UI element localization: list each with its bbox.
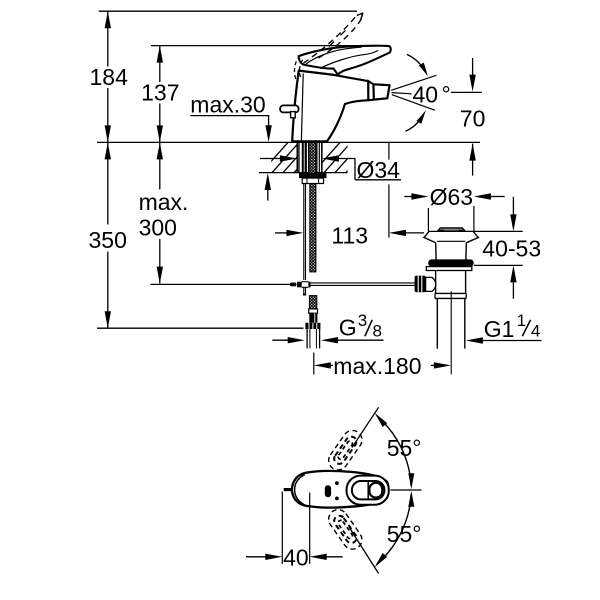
node 113 dimension: [275, 232, 288, 234]
wire: [99, 10, 357, 12]
top view: lever capsule inner: [352, 481, 385, 499]
body inner line: [301, 74, 303, 141]
svg-text:350: 350: [89, 227, 127, 253]
countertop cross-section hatch left: [258, 138, 347, 176]
node 350 dimension: [107, 142, 109, 224]
drain: Ø63 extension lines: [427, 208, 429, 231]
drain flange top line: [429, 230, 523, 232]
wire: [259, 172, 348, 174]
svg-text:Ø34: Ø34: [357, 157, 401, 183]
svg-text:40: 40: [283, 545, 309, 571]
faucet shank: second tube: [316, 142, 318, 172]
body top edge: [299, 71, 334, 75]
hose fitting collar: [309, 309, 318, 313]
extension line aerator axis: [388, 142, 390, 159]
svg-text:137: 137: [141, 80, 179, 106]
knob connector: [426, 277, 436, 291]
node 137 dimension: [159, 46, 161, 82]
drain flange funnel: [424, 231, 436, 242]
pop-up linkage horizontal line: [150, 283, 285, 285]
top view: horizontal centerline right: [391, 489, 422, 491]
node 184 dimension: [107, 11, 109, 66]
hose end tube G3/8: [306, 329, 308, 348]
node 70 dimension: [472, 58, 474, 77]
drain dome plug (gray): [438, 228, 466, 231]
top view: faucet body outline: [292, 471, 389, 508]
top view: cartridge pill: [325, 485, 331, 497]
drain centerline: [450, 291, 452, 374]
svg-text:300: 300: [139, 215, 177, 241]
mounting nut: [299, 173, 327, 178]
svg-text:°: °: [442, 81, 451, 107]
top view: capsule divider: [367, 482, 369, 499]
swivel arc arrow upper: [407, 54, 425, 71]
top view: capsule inner oval: [369, 483, 382, 498]
svg-text:55°: 55°: [387, 435, 422, 461]
svg-text:max.30: max.30: [190, 91, 265, 117]
lever inner curves: [306, 47, 362, 64]
pop-up control knob: [280, 105, 299, 112]
swivel arc arrow lower: [406, 115, 424, 131]
node max300 dimension: [159, 142, 161, 189]
svg-text:8: 8: [373, 321, 382, 340]
flexible hose braided (lower): [309, 296, 316, 309]
top view: rod tip: [284, 488, 293, 491]
drain seal ring (black): [428, 259, 474, 266]
top view: lever capsule outer: [347, 476, 389, 505]
drain tailpipe G1 1/4: [436, 298, 438, 348]
top view: dome arc: [295, 474, 305, 505]
pivot ghost arcs (dashed): [294, 57, 299, 80]
svg-text:70: 70: [460, 106, 486, 132]
node 40 dimension: [281, 492, 283, 564]
top view: dots: [335, 481, 339, 485]
top view: dashed lever lower: [325, 506, 366, 553]
lever raised position (dashed): [304, 15, 358, 63]
faucet shank: hose tube: [305, 142, 307, 172]
svg-text:40-53: 40-53: [482, 235, 541, 261]
faucet shank: mounting stud: [298, 142, 300, 172]
node 40-53 dimension: [474, 264, 523, 266]
adjustment knob: [415, 276, 426, 293]
aerator cap: [373, 84, 389, 99]
spray fan lines: [391, 75, 436, 90]
linkage clamp block: [297, 282, 302, 288]
hose nut: [305, 323, 320, 329]
wire: [97, 141, 480, 143]
svg-text:55°: 55°: [387, 521, 422, 547]
top view: swivel arc upper: [377, 416, 411, 486]
svg-text:G1: G1: [484, 316, 515, 342]
pop-up rod lower tip: [303, 287, 305, 293]
faucet shank: pop-up rod: [303, 142, 305, 280]
node G3/8 label: [272, 339, 288, 341]
svg-text:3: 3: [358, 311, 367, 330]
aerator ring: [368, 81, 374, 100]
node max180 dimension: [313, 353, 315, 375]
svg-text:G: G: [339, 314, 357, 340]
node G1-1/4 label: [466, 337, 483, 343]
svg-text:184: 184: [90, 64, 129, 90]
svg-text:4: 4: [531, 321, 540, 340]
node diameter 63 dimension: [404, 196, 412, 198]
drain body: [435, 271, 437, 294]
hole edges: [296, 142, 298, 172]
svg-text:113: 113: [331, 222, 368, 248]
linkage left end cap: [290, 283, 296, 287]
top view: 55deg diagonal upper: [352, 407, 379, 447]
svg-text:1: 1: [517, 311, 526, 330]
svg-text:40: 40: [413, 81, 439, 107]
drain neck: [435, 243, 437, 260]
linkage rod to drain: [311, 282, 415, 284]
drain coupling: [435, 292, 466, 294]
top view: dashed lever upper: [325, 427, 366, 474]
aerator centerline segment: [451, 91, 482, 93]
hose knurled section: [309, 313, 317, 323]
lever handle (rest position): [299, 46, 391, 75]
svg-text:Ø63: Ø63: [430, 184, 473, 210]
node diameter 34 label: [260, 158, 282, 160]
svg-text:max.180: max.180: [333, 353, 421, 379]
wire: [151, 45, 389, 47]
svg-text:max.: max.: [139, 189, 189, 215]
wire: [97, 327, 304, 329]
top view: swivel arc lower: [377, 494, 411, 564]
countertop cross-section hatch right: [310, 138, 399, 176]
drain washer: [426, 267, 472, 271]
faucet body outline: [292, 71, 368, 142]
top view: 55deg diagonal lower: [349, 527, 379, 574]
